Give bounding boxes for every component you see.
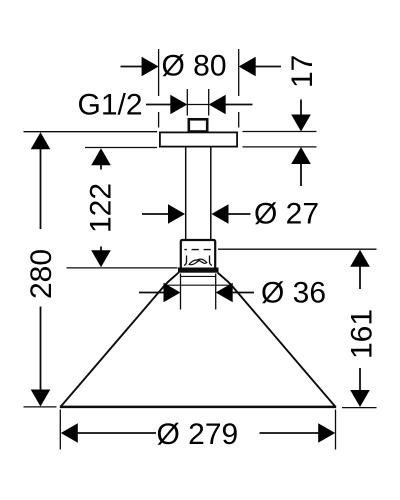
dim Ø279 right arrowhead: [318, 423, 335, 443]
dim 122 upper arrowhead: [91, 148, 111, 165]
dim G1/2 connecting line: [187, 104, 208, 106]
dim 161 bottom extension line: [342, 407, 377, 409]
svg-text:Ø 279: Ø 279: [157, 418, 239, 451]
riser pipe left wall: [185, 148, 187, 240]
svg-text:161: 161: [346, 309, 379, 359]
dim Ø279 right tail: [260, 432, 320, 434]
ceiling plate: [160, 132, 237, 146]
dim Ø36 left arrowhead: [164, 283, 181, 303]
dim 280 lower line: [40, 307, 42, 392]
hidden outlet plane dashed line: [184, 249, 214, 251]
dim 161 lower arrowhead: [350, 390, 370, 407]
dim Ø80 left extension line: [158, 49, 160, 128]
dim 122 lower arrowhead: [91, 250, 111, 267]
dim 161 upper line: [359, 266, 361, 289]
svg-text:Ø 80: Ø 80: [162, 50, 227, 83]
cone right edge: [218, 273, 336, 407]
dim 161 upper arrowhead: [350, 250, 370, 267]
dim 280 upper arrowhead: [31, 132, 51, 149]
dim Ø80 left tail: [121, 66, 144, 68]
dim 280 upper line: [40, 148, 42, 229]
svg-text:G1/2: G1/2: [78, 89, 143, 122]
dim G1/2 right extension line: [208, 89, 210, 116]
dim Ø27 left arrowhead: [168, 204, 185, 224]
aerator lens left half: [189, 260, 199, 265]
dim Ø279 left extension line: [59, 410, 61, 450]
flange band: [178, 268, 219, 273]
dim 122 lower line: [100, 247, 102, 253]
dim 17 lower tail: [300, 163, 302, 186]
svg-text:122: 122: [85, 183, 118, 233]
dim 161 top extension line: [218, 248, 377, 250]
dim Ø36 right arrowhead: [216, 283, 233, 303]
G1/2 connector stub: [189, 119, 207, 131]
dim G1/2 leader line: [146, 104, 172, 106]
dim G1/2 right tail: [225, 104, 253, 106]
connector housing: [181, 240, 215, 268]
dim Ø36 right extension line: [215, 274, 217, 310]
cone left edge: [61, 273, 179, 407]
dim 122 top extension line: [85, 147, 157, 149]
dim Ø279 right extension line: [335, 410, 337, 450]
dim Ø279 left arrowhead: [61, 423, 78, 443]
dim Ø36 left extension line: [180, 274, 182, 310]
svg-text:Ø 27: Ø 27: [254, 198, 319, 231]
dim Ø80 left arrowhead: [142, 57, 159, 77]
dim Ø80 right extension line: [238, 49, 240, 128]
aerator detail right wall: [210, 256, 213, 266]
dim Ø27 right arrowhead: [212, 204, 229, 224]
dim Ø36 left tail: [139, 292, 165, 294]
dim 280 bottom extension line: [24, 406, 57, 408]
dim Ø279 left tail: [77, 432, 156, 434]
dim Ø80 right arrowhead: [239, 57, 256, 77]
dim 17 lower arrowhead: [291, 147, 311, 164]
cone bottom rim: [60, 406, 336, 409]
dim 161 lower line: [359, 368, 361, 391]
dim 280 lower arrowhead: [31, 390, 51, 407]
cone lower ring line: [164, 284, 233, 286]
cone upper ring line: [180, 275, 216, 277]
dim 122 upper line: [100, 164, 102, 169]
riser pipe right wall: [210, 148, 212, 240]
dim 122 bottom extension line: [67, 267, 178, 269]
dim 17 bottom extension line: [243, 146, 317, 148]
dim Ø27 right tail: [228, 213, 251, 215]
dim 280 top extension line: [24, 131, 158, 133]
dim G1/2 left extension line: [186, 89, 188, 116]
svg-text:17: 17: [286, 55, 319, 88]
dim Ø80 right tail: [254, 66, 281, 68]
aerator lens right half: [198, 259, 207, 263]
dim 17 upper tail: [300, 100, 302, 117]
dim Ø36 right tail: [232, 292, 254, 294]
dim G1/2 right arrowhead: [209, 95, 226, 115]
dim G1/2 left arrowhead: [170, 95, 187, 115]
aerator detail left wall: [184, 256, 187, 266]
dim 17 upper arrowhead: [291, 115, 311, 132]
svg-text:Ø 36: Ø 36: [261, 277, 326, 310]
dim Ø27 left tail: [142, 213, 170, 215]
dim 17 top extension line: [243, 131, 317, 133]
svg-text:280: 280: [25, 249, 58, 299]
